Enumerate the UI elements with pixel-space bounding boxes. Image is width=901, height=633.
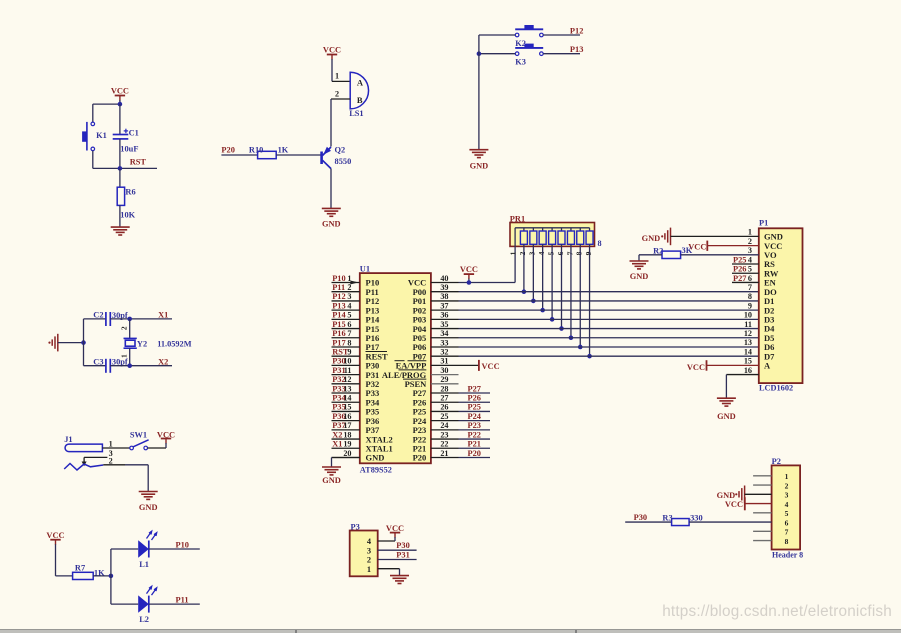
svg-text:1: 1 — [367, 565, 371, 574]
wire PR1 pin 6 to P04 — [561, 244, 563, 328]
svg-text:34: 34 — [440, 329, 448, 338]
svg-text:L1: L1 — [139, 560, 149, 569]
svg-text:2: 2 — [518, 251, 527, 255]
PR1 resistor element 5 — [546, 228, 555, 256]
wire buzzer to Q2 emitter — [330, 99, 332, 147]
wire R3 to P2 pin 6 — [689, 521, 772, 523]
pin 15 A (P1) — [744, 357, 771, 371]
svg-text:1: 1 — [785, 472, 789, 481]
PR1 resistor element 6 — [556, 228, 565, 256]
svg-text:GND: GND — [322, 220, 341, 229]
power VCC (P1 pin 2) — [688, 241, 759, 252]
power VCC (U1 pin 40) — [460, 265, 478, 283]
pin 3 (P2) — [785, 491, 789, 500]
svg-text:37: 37 — [440, 301, 448, 310]
svg-text:10uF: 10uF — [120, 144, 138, 153]
power VCC (LEDs) — [46, 531, 64, 576]
wire R10 to Q2 base — [276, 154, 321, 156]
svg-text:6: 6 — [785, 518, 789, 527]
wire P02 bus to LCD D2 — [459, 309, 759, 311]
pin 27 P26 (U1 right) — [413, 394, 490, 408]
svg-text:VCC: VCC — [460, 265, 478, 274]
svg-text:1K: 1K — [278, 146, 289, 155]
node P05 junction — [569, 335, 574, 340]
power VCC (reset circuit) — [111, 87, 129, 105]
svg-text:32: 32 — [440, 347, 448, 356]
capacitor C1 — [113, 104, 139, 168]
pin 1 (P2) — [753, 472, 789, 481]
resistor R2 3K — [639, 246, 759, 261]
svg-text:6: 6 — [347, 320, 351, 329]
svg-text:16: 16 — [343, 412, 351, 421]
LED L2 — [138, 586, 157, 624]
wire C3 to X2 — [110, 365, 172, 367]
svg-text:VCC: VCC — [111, 87, 129, 96]
ground (buttons) — [469, 150, 488, 171]
wire PR1 pin 4 to P02 — [542, 244, 544, 310]
pushbutton K2 — [515, 26, 543, 49]
PR1 resistor element 8 — [575, 228, 584, 256]
net label X1 — [158, 311, 168, 320]
svg-text:9: 9 — [584, 251, 593, 255]
wire L2 to P11 — [149, 603, 200, 605]
svg-text:10: 10 — [343, 357, 351, 366]
pin 4 (P2) — [785, 500, 789, 509]
svg-text:7: 7 — [565, 251, 574, 255]
pin 1 (P3) — [367, 565, 371, 574]
node P03 junction — [550, 317, 555, 322]
svg-text:33: 33 — [440, 338, 448, 347]
svg-text:39: 39 — [440, 283, 448, 292]
pin 39 P00 (U1 right) — [413, 283, 459, 297]
svg-text:K3: K3 — [515, 58, 526, 67]
wire P03 bus to LCD D3 — [459, 318, 759, 320]
pin 7 (P2) — [753, 528, 789, 537]
wire P05 bus to LCD D5 — [459, 337, 759, 339]
pin 2 (P3) — [367, 556, 371, 565]
svg-text:AT89S52: AT89S52 — [360, 465, 392, 474]
pin 11 P31 (U1 left) — [332, 366, 380, 380]
wire P00 bus to LCD D0 — [459, 291, 759, 293]
svg-text:30: 30 — [440, 366, 448, 375]
wire K1 bottom to RST node — [93, 151, 157, 169]
ground port (crystal) — [48, 334, 57, 352]
svg-text:3: 3 — [528, 251, 537, 255]
svg-text:3: 3 — [367, 546, 371, 555]
pin 36 P03 (U1 right) — [413, 311, 459, 325]
svg-text:8: 8 — [598, 239, 602, 248]
svg-text:P13: P13 — [570, 45, 584, 54]
svg-text:4: 4 — [537, 251, 546, 255]
pin 21 P20 (U1 right) — [413, 449, 490, 463]
power VCC (P3 pin 4) — [378, 524, 404, 541]
svg-text:4: 4 — [748, 255, 752, 264]
svg-text:B: B — [357, 95, 363, 105]
pin 20 GND (U1 left) — [332, 449, 385, 463]
svg-text:C3: C3 — [93, 357, 103, 366]
PR1 resistor element 7 — [565, 228, 574, 256]
pin 4 RS (P1) — [732, 255, 775, 269]
pin 7 DO (P1) — [748, 283, 777, 297]
svg-text:GND: GND — [717, 491, 736, 500]
svg-text:7: 7 — [785, 528, 789, 537]
pin 32 P07 (U1 right) — [413, 347, 459, 361]
svg-text:2: 2 — [109, 456, 113, 465]
node P01 junction — [531, 299, 536, 304]
svg-text:12: 12 — [744, 329, 752, 338]
svg-text:P27: P27 — [733, 274, 747, 283]
svg-text:3: 3 — [748, 246, 752, 255]
wire K3 left — [479, 53, 515, 55]
pin 38 P01 (U1 right) — [413, 292, 459, 306]
svg-text:VCC: VCC — [323, 45, 341, 54]
svg-text:3K: 3K — [682, 246, 693, 255]
svg-text:P21: P21 — [468, 440, 482, 449]
svg-text:P11: P11 — [332, 283, 345, 292]
svg-text:C2: C2 — [93, 311, 103, 320]
pin 24 P23 (U1 right) — [413, 421, 490, 435]
pin 4 (P3) — [367, 537, 372, 546]
node P00 junction — [522, 289, 527, 294]
svg-text:P30: P30 — [396, 541, 410, 550]
svg-text:19: 19 — [343, 440, 351, 449]
pin 12 P32 (U1 left) — [332, 375, 380, 389]
svg-text:3: 3 — [785, 491, 789, 500]
svg-text:1: 1 — [748, 228, 752, 237]
pin 13 P33 (U1 left) — [332, 384, 380, 398]
ground port (P2 pin 3) — [717, 486, 772, 504]
svg-text:22: 22 — [440, 440, 448, 449]
wire VCC to buzzer pin 1 — [332, 80, 350, 82]
pin 6 P15 (U1 left) — [332, 320, 380, 334]
wire U1 pin 20 to ground — [332, 457, 360, 466]
LED L1 — [138, 531, 157, 569]
wire P06 bus to LCD D6 — [459, 346, 759, 348]
crystal Y2 11.0592M — [119, 319, 191, 366]
pin 12 D5 (P1) — [744, 329, 775, 343]
svg-text:LCD1602: LCD1602 — [759, 384, 793, 393]
svg-text:Q2: Q2 — [335, 146, 346, 155]
svg-text:2: 2 — [119, 326, 128, 330]
svg-text:X1: X1 — [332, 440, 342, 449]
pin 7 P16 (U1 left) — [332, 329, 380, 343]
ground port (P1 pin 1) — [642, 228, 759, 246]
PR1 resistor element 9 — [584, 228, 593, 256]
net label X2 — [158, 357, 168, 366]
node LED branch — [109, 549, 114, 604]
svg-text:7: 7 — [748, 283, 752, 292]
power VCC (SW1) — [157, 430, 175, 448]
net label RST — [130, 158, 147, 167]
wire P04 bus to LCD D4 — [459, 328, 759, 330]
svg-text:GND: GND — [630, 272, 649, 281]
svg-text:GND: GND — [717, 412, 736, 421]
ground (P1 pin 16) — [717, 398, 736, 421]
svg-text:40: 40 — [440, 274, 448, 283]
svg-text:38: 38 — [440, 292, 448, 301]
svg-text:8550: 8550 — [335, 157, 352, 166]
node K2/K3 common — [477, 51, 482, 56]
svg-text:LS1: LS1 — [349, 109, 363, 118]
power VCC (P2 pin 4) — [725, 497, 772, 510]
pin 10 D3 (P1) — [744, 311, 775, 325]
svg-text:Y2: Y2 — [137, 340, 147, 349]
svg-text:1: 1 — [335, 72, 339, 81]
svg-text:31: 31 — [440, 357, 448, 366]
ground (buzzer) — [322, 208, 341, 228]
net label P13 — [570, 45, 584, 54]
svg-text:20: 20 — [343, 449, 351, 458]
wire P3 pin 1 to ground — [378, 569, 400, 576]
IC U1 AT89S52 body — [360, 265, 431, 475]
power VCC (P1 pin 15) — [687, 360, 759, 372]
pin 10 P30 (U1 left) — [332, 357, 380, 371]
pin 35 P04 (U1 right) — [413, 320, 459, 334]
PR1 resistor element 3 — [528, 228, 537, 256]
svg-text:C1: C1 — [129, 128, 139, 137]
ground (reset) — [111, 227, 130, 235]
node reset-top junction — [118, 102, 123, 107]
wire to LED L1 — [111, 548, 138, 550]
svg-text:18: 18 — [343, 430, 351, 439]
wire PR1 pin 7 to P05 — [570, 244, 572, 337]
pin 9 D2 (P1) — [748, 301, 774, 315]
wire C2 to X1 — [110, 318, 172, 320]
svg-text:21: 21 — [440, 449, 448, 458]
svg-text:X2: X2 — [158, 357, 168, 366]
pin 34 P05 (U1 right) — [413, 329, 459, 343]
pin 5 P14 (U1 left) — [332, 311, 380, 325]
svg-text:11.0592M: 11.0592M — [157, 340, 192, 349]
status bar strip — [0, 629, 901, 633]
pin 2 VCC (P1) — [748, 237, 783, 251]
buzzer LS1 — [335, 72, 369, 118]
svg-text:23: 23 — [440, 430, 448, 439]
svg-text:9: 9 — [748, 301, 752, 310]
pin 3 (P3) — [367, 546, 371, 555]
svg-text:8: 8 — [347, 338, 351, 347]
svg-text:VCC: VCC — [46, 531, 64, 540]
svg-text:28: 28 — [440, 384, 448, 393]
svg-text:2: 2 — [748, 237, 752, 246]
svg-text:36: 36 — [440, 311, 448, 320]
pin 6 EN (P1) — [732, 274, 777, 288]
PR1 resistor element 4 — [537, 228, 546, 256]
pin 1 GND (P1) — [748, 228, 783, 242]
node P06 junction — [578, 345, 583, 350]
svg-text:26: 26 — [440, 403, 448, 412]
svg-text:RST: RST — [130, 158, 147, 167]
node P04 junction — [559, 326, 564, 331]
svg-text:P26: P26 — [733, 265, 747, 274]
pin 8 P17 (U1 left) — [332, 338, 380, 352]
svg-text:P25: P25 — [468, 403, 482, 412]
svg-text:VCC: VCC — [725, 500, 743, 509]
svg-text:2: 2 — [347, 283, 351, 292]
svg-text:P14: P14 — [332, 311, 346, 320]
pin 9 REST (U1 left) — [332, 347, 389, 361]
svg-text:A: A — [357, 78, 364, 88]
node P02 junction — [540, 308, 545, 313]
wire P07 bus to LCD D7 — [459, 355, 759, 357]
net label P20 — [221, 146, 257, 155]
wire P1 pin 16 to ground — [726, 375, 758, 398]
svg-text:P20: P20 — [221, 146, 235, 155]
svg-text:5: 5 — [347, 311, 351, 320]
wire VCC to R7 — [56, 575, 73, 577]
pin 14 D7 (P1) — [744, 347, 775, 361]
svg-text:VCC: VCC — [482, 362, 500, 371]
svg-text:1: 1 — [509, 251, 518, 255]
svg-text:P20: P20 — [468, 449, 482, 458]
wire SW1 to VCC — [148, 447, 167, 449]
pin 30 ALE/PROG (U1 right) — [382, 366, 459, 380]
pin 14 P34 (U1 left) — [332, 394, 380, 408]
wire P01 bus to LCD D1 — [459, 300, 759, 302]
node P07 junction — [587, 354, 592, 359]
svg-text:10: 10 — [744, 311, 752, 320]
connector P2 Header 8 body — [772, 457, 804, 559]
svg-text:P27: P27 — [468, 384, 482, 393]
pin 17 P37 (U1 left) — [332, 421, 380, 435]
svg-text:8: 8 — [785, 537, 789, 546]
pin 1 P10 (U1 left) — [332, 274, 380, 288]
svg-text:P15: P15 — [332, 320, 346, 329]
svg-text:25: 25 — [440, 412, 448, 421]
pin 28 P27 (U1 right) — [413, 384, 490, 398]
pushbutton K1 — [83, 122, 107, 151]
svg-text:29: 29 — [440, 375, 448, 384]
pin 37 P02 (U1 right) — [413, 301, 459, 315]
svg-text:GND: GND — [366, 453, 385, 463]
svg-text:P20: P20 — [413, 453, 427, 463]
svg-text:8: 8 — [748, 292, 752, 301]
svg-text:7: 7 — [347, 329, 351, 338]
svg-text:P31: P31 — [396, 551, 410, 560]
pin 29 PSEN (U1 right) — [403, 375, 459, 389]
cursor arrow at pin 1 — [349, 280, 359, 285]
transistor Q2 8550 — [322, 146, 352, 169]
svg-text:X1: X1 — [158, 311, 168, 320]
svg-text:13: 13 — [343, 384, 351, 393]
pin 5 (P2) — [753, 509, 789, 518]
svg-text:P1: P1 — [759, 219, 768, 228]
wire capacitor branch vertical — [83, 319, 85, 366]
ground (power input) — [139, 492, 158, 513]
svg-text:11: 11 — [744, 320, 752, 329]
svg-text:R6: R6 — [125, 188, 135, 197]
svg-text:P22: P22 — [468, 430, 482, 439]
svg-text:35: 35 — [440, 320, 448, 329]
svg-text:5: 5 — [546, 251, 555, 255]
resistor R6 — [117, 168, 135, 227]
svg-text:2: 2 — [335, 89, 339, 98]
svg-text:K1: K1 — [96, 131, 107, 140]
wire K2 left — [479, 34, 515, 36]
pin 40 VCC (U1 right) — [408, 274, 459, 288]
svg-text:GND: GND — [642, 234, 661, 243]
pin 31 EA/VPP (U1 right) — [395, 357, 459, 371]
svg-text:R7: R7 — [75, 564, 85, 573]
svg-text:P30: P30 — [634, 513, 648, 522]
node VCC junction — [467, 280, 472, 285]
svg-text:11: 11 — [344, 366, 352, 375]
pin 6 (P2) — [785, 518, 789, 527]
connector J1 — [64, 435, 113, 465]
svg-text:P10: P10 — [176, 540, 190, 549]
wire J1 pin 2 to ground — [125, 465, 148, 491]
pin 2 (P2) — [753, 481, 789, 490]
pin 8 D1 (P1) — [748, 292, 774, 306]
pin 13 D6 (P1) — [744, 338, 775, 352]
net label P10 — [176, 540, 190, 549]
svg-text:VCC: VCC — [386, 524, 404, 533]
svg-text:330: 330 — [690, 513, 703, 522]
svg-text:10K: 10K — [120, 211, 135, 220]
watermark — [662, 603, 892, 621]
wire J1 pin 1 to SW1 — [102, 447, 130, 449]
svg-text:4: 4 — [785, 500, 789, 509]
pin 19 XTAL1 (U1 left) — [332, 440, 393, 454]
svg-text:VCC: VCC — [687, 363, 705, 372]
resistor pack PR1 body — [510, 214, 602, 248]
svg-text:5: 5 — [785, 509, 789, 518]
pin 16 P36 (U1 left) — [332, 412, 380, 426]
svg-text:GND: GND — [470, 162, 489, 171]
svg-text:2: 2 — [785, 481, 789, 490]
node RST junction — [118, 166, 123, 171]
svg-text:A: A — [764, 361, 771, 371]
connector P1 LCD1602 body — [759, 219, 803, 393]
pin 8 (P2) — [753, 537, 789, 546]
svg-text:P12: P12 — [332, 292, 346, 301]
svg-text:P12: P12 — [570, 26, 584, 35]
svg-text:X2: X2 — [332, 430, 342, 439]
node X2 junction — [127, 363, 132, 368]
svg-text:14: 14 — [744, 347, 752, 356]
ground (R2) — [630, 261, 649, 281]
pin 33 P06 (U1 right) — [413, 338, 459, 352]
svg-text:27: 27 — [440, 394, 448, 403]
pin 5 RW (P1) — [732, 265, 779, 279]
pin 25 P24 (U1 right) — [413, 412, 490, 426]
pin 26 P25 (U1 right) — [413, 403, 490, 417]
wire PR1 pin 2 to P00 — [523, 244, 525, 291]
resistor R7 — [73, 564, 105, 580]
wire PR1 pin 8 to P06 — [579, 244, 581, 347]
svg-text:GND: GND — [139, 503, 158, 512]
node X1 junction — [127, 317, 132, 322]
pin 3 VO (P1) — [748, 246, 777, 260]
pin 4 P13 (U1 left) — [332, 301, 380, 315]
PR1 resistor element 2 — [518, 228, 527, 256]
pin 16 K (P1) — [744, 366, 752, 375]
wire PR1 pin 5 to P03 — [551, 244, 553, 319]
wire PR1 pin 3 to P01 — [532, 244, 534, 301]
wire to LED L2 — [111, 603, 138, 605]
power VCC (buzzer) — [323, 45, 341, 81]
svg-text:2: 2 — [367, 556, 371, 565]
svg-text:14: 14 — [343, 394, 351, 403]
svg-text:12: 12 — [343, 375, 351, 384]
svg-text:4: 4 — [347, 301, 351, 310]
net label P12 — [570, 26, 584, 35]
pin 3 P12 (U1 left) — [332, 292, 380, 306]
svg-text:R3: R3 — [662, 513, 672, 522]
svg-text:8: 8 — [575, 251, 584, 255]
pin J1-3 contact — [82, 457, 108, 466]
switch SW1 — [130, 430, 149, 450]
